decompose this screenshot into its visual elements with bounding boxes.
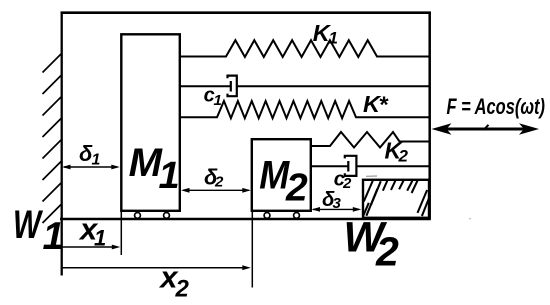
dimension delta3 arrow — [312, 207, 362, 212]
svg-text:2: 2 — [214, 174, 224, 191]
svg-text:2: 2 — [175, 275, 190, 302]
damper c2 piston — [347, 161, 349, 172]
dimension delta1 arrow — [62, 165, 120, 170]
mass M1 box — [121, 34, 180, 211]
wheel under M1 left — [135, 213, 141, 219]
mass M2 box — [252, 139, 311, 211]
dimension delta2 arrow — [181, 188, 251, 193]
pencil mark above block — [366, 175, 377, 177]
stray speck — [469, 218, 471, 220]
damper c1 piston — [230, 81, 232, 92]
spring K1 — [180, 40, 430, 57]
damper c2 right rod — [356, 165, 429, 167]
frame top wall — [61, 11, 431, 14]
frame right wall — [428, 12, 431, 220]
svg-text:3: 3 — [333, 195, 342, 212]
svg-text:2: 2 — [375, 228, 399, 274]
svg-text:1: 1 — [214, 92, 222, 109]
fixed hatched block — [363, 176, 429, 218]
damper c2 rod — [311, 165, 348, 167]
wheel under M2 right — [294, 213, 300, 219]
svg-text:1: 1 — [43, 215, 65, 258]
svg-text:1: 1 — [329, 28, 338, 47]
svg-text:1: 1 — [94, 226, 106, 251]
wall hatching — [43, 54, 62, 223]
svg-text:W: W — [13, 203, 43, 247]
M2 extension line — [251, 211, 253, 288]
wheel under M1 right — [164, 213, 170, 219]
svg-text:*: * — [379, 92, 390, 118]
spring K* — [180, 101, 430, 118]
force arrow F — [432, 123, 540, 135]
svg-text:2: 2 — [285, 167, 308, 210]
damper c1 right rod — [237, 85, 430, 87]
svg-text:1: 1 — [92, 152, 101, 169]
damper c1 cylinder — [228, 76, 237, 97]
wheel under M2 left — [264, 213, 270, 219]
svg-text:2: 2 — [342, 175, 352, 192]
svg-text:2: 2 — [398, 146, 409, 165]
dimension x2 arrow — [61, 265, 251, 270]
dimension x1 arrow — [61, 245, 120, 250]
svg-text:F = Acos(ωt): F = Acos(ωt) — [447, 94, 546, 119]
damper c1 rod — [180, 85, 231, 87]
svg-text:1: 1 — [159, 155, 180, 197]
ground (frame bottom) — [60, 218, 431, 221]
damper c2 cylinder — [345, 156, 357, 176]
M1 extension line — [120, 211, 122, 255]
spring K2 — [311, 132, 430, 148]
frame left wall line — [61, 12, 63, 276]
